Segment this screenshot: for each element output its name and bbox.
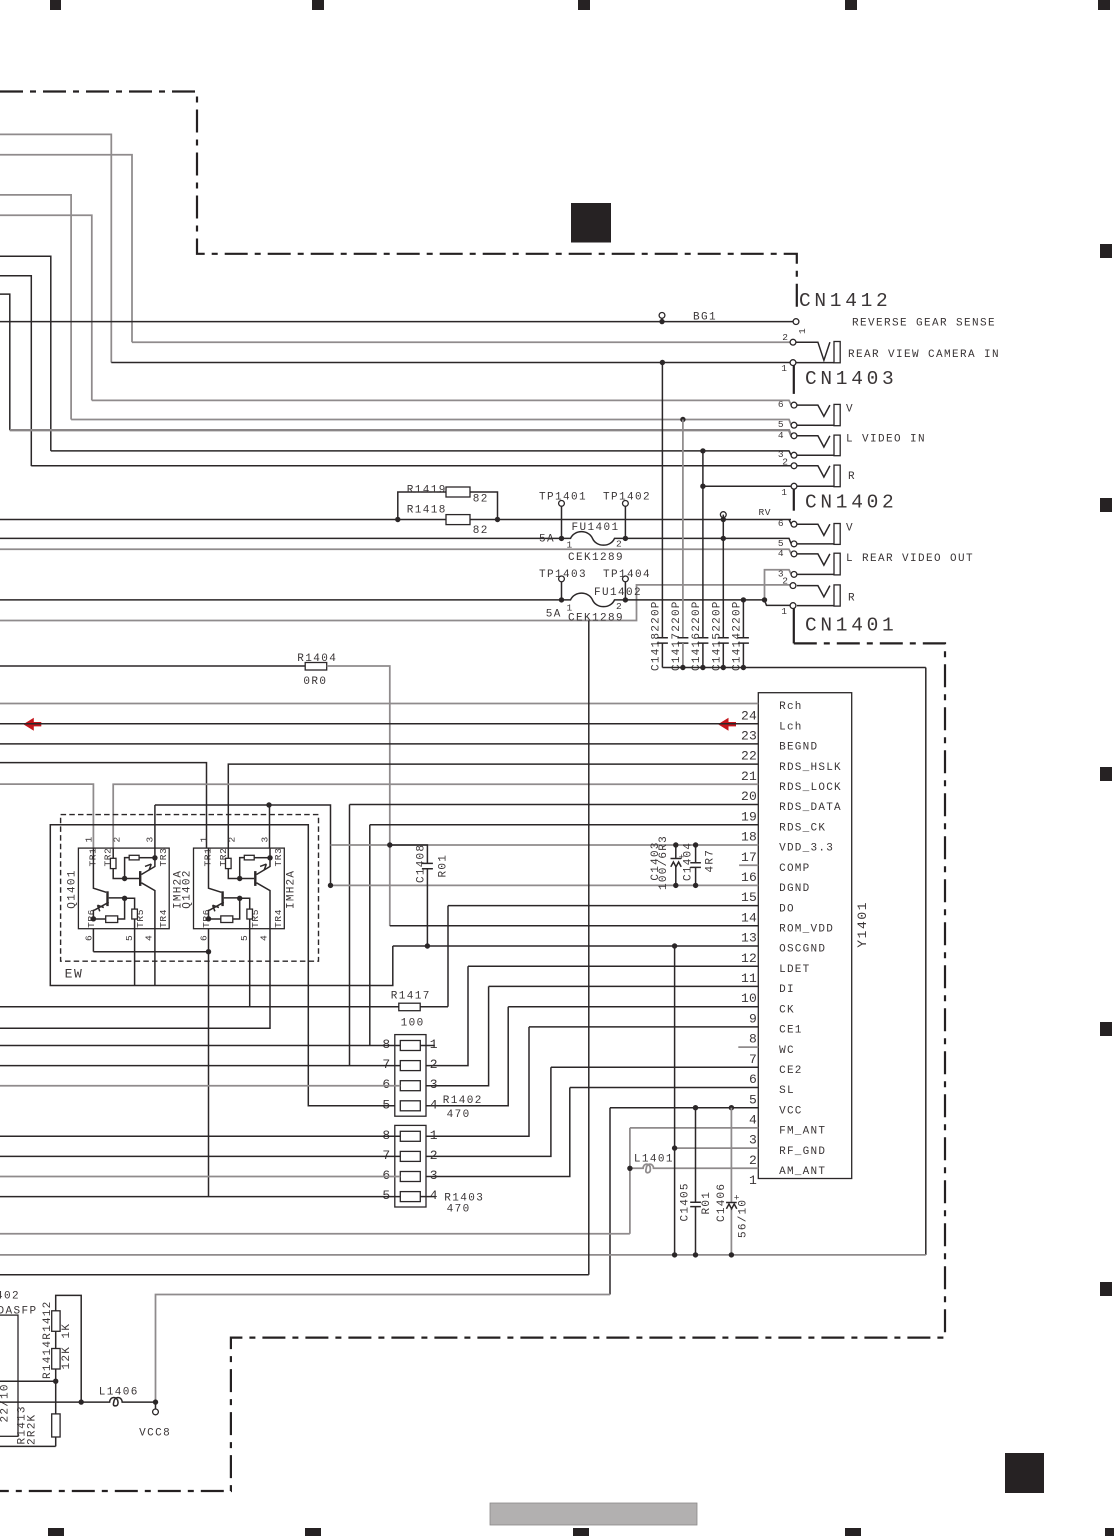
wire pin9 to R1402 pin4 xyxy=(426,1007,508,1106)
registration mark top xyxy=(578,0,590,10)
svg-text:1: 1 xyxy=(781,606,787,617)
svg-text:1: 1 xyxy=(567,603,573,614)
resistor R1403 element 3 xyxy=(400,1172,420,1182)
svg-text:4: 4 xyxy=(749,1113,757,1128)
svg-text:CE1: CE1 xyxy=(779,1025,803,1037)
wire VCC pin4 xyxy=(610,1107,758,1109)
power VCC8 xyxy=(155,1402,157,1409)
junction xyxy=(673,883,678,888)
svg-text:Q1401: Q1401 xyxy=(67,869,79,908)
wire RDS_CK pin18 xyxy=(370,824,759,826)
svg-text:1: 1 xyxy=(781,363,787,374)
svg-text:R1419: R1419 xyxy=(407,484,447,496)
svg-text:R1418: R1418 xyxy=(407,505,447,517)
wire CK pin9 xyxy=(508,1006,758,1008)
wire pin6 net to R1403 row4 xyxy=(208,929,210,1197)
junction C1417 top xyxy=(680,417,685,422)
wire Q1401 pin2 to RDS_LOCK pin20 xyxy=(113,784,758,858)
capacitor C1414 xyxy=(742,600,744,637)
svg-text:R: R xyxy=(848,471,856,483)
wire FM_ANT pin3 xyxy=(630,1127,758,1129)
fuse FU1401 xyxy=(562,532,792,546)
wire Q1402 pin2 to RDS_HSLK pin21 xyxy=(228,764,758,858)
wire R1417 right xyxy=(420,1006,448,1008)
wire OSCGND guard ring xyxy=(50,825,395,1106)
svg-text:2: 2 xyxy=(782,332,788,343)
svg-text:Q1402: Q1402 xyxy=(182,869,194,908)
svg-text:TP1404: TP1404 xyxy=(603,569,651,581)
svg-text:5: 5 xyxy=(382,1097,390,1112)
svg-text:REVERSE GEAR SENSE: REVERSE GEAR SENSE xyxy=(852,318,996,330)
junction xyxy=(267,855,272,860)
junction pin1 pin3 net xyxy=(762,597,767,602)
svg-text:9: 9 xyxy=(749,1012,757,1027)
svg-text:23: 23 xyxy=(741,729,757,744)
svg-text:LDET: LDET xyxy=(779,964,810,976)
junction xyxy=(693,1252,698,1257)
wire pin19 to R1402 pin7 xyxy=(349,805,351,1066)
wire pin5 to R1403 pin3 xyxy=(426,1088,570,1177)
svg-text:RV: RV xyxy=(759,507,772,518)
pin 1 CN1412 xyxy=(793,319,799,325)
svg-text:5: 5 xyxy=(749,1092,757,1107)
wire xyxy=(0,215,92,400)
wire xyxy=(789,520,791,525)
svg-text:100: 100 xyxy=(401,1018,425,1030)
svg-text:DI: DI xyxy=(779,984,795,996)
svg-text:1: 1 xyxy=(199,836,210,842)
svg-text:12: 12 xyxy=(741,951,757,966)
wire to CN1402 pin 2 xyxy=(0,585,791,621)
junction xyxy=(700,665,705,670)
svg-text:IMH2A: IMH2A xyxy=(285,870,297,909)
svg-text:82: 82 xyxy=(473,525,489,537)
svg-text:2: 2 xyxy=(430,1057,438,1072)
svg-text:1: 1 xyxy=(430,1037,438,1052)
svg-text:8: 8 xyxy=(382,1128,390,1143)
resistor R1419 xyxy=(446,487,470,497)
junction xyxy=(122,896,127,901)
svg-text:RDS_LOCK: RDS_LOCK xyxy=(779,782,842,794)
pin 6 CN1402 xyxy=(791,521,797,527)
svg-text:8: 8 xyxy=(749,1032,757,1047)
svg-text:6: 6 xyxy=(778,518,784,529)
wire pin18 to R1402 pin8 xyxy=(369,825,371,1046)
svg-text:CEK1289: CEK1289 xyxy=(568,552,624,564)
svg-text:WC: WC xyxy=(779,1045,795,1057)
registration mark right xyxy=(1100,1282,1112,1296)
svg-text:TP1403: TP1403 xyxy=(539,569,587,581)
wire R1412 R1414 xyxy=(55,1331,57,1348)
IC Y1401 body xyxy=(758,693,851,1179)
wire LDET pin11 xyxy=(468,965,758,967)
svg-text:CE2: CE2 xyxy=(779,1065,803,1077)
svg-text:RDS_CK: RDS_CK xyxy=(779,823,826,835)
jack symbol V out xyxy=(797,524,830,535)
wire Q1401 pin4 down xyxy=(154,929,156,986)
node TP1404 xyxy=(623,576,629,582)
resistor network R1403 xyxy=(395,1125,426,1207)
svg-text:3: 3 xyxy=(749,1133,757,1148)
registration mark top xyxy=(312,0,324,10)
transistor internals Q1402 xyxy=(209,848,222,892)
svg-text:1: 1 xyxy=(749,1173,757,1188)
capacitor C1408 xyxy=(390,845,428,863)
svg-text:1: 1 xyxy=(797,328,808,334)
wire DI pin10 xyxy=(489,985,759,987)
junction xyxy=(673,842,678,847)
border dash-dot top left xyxy=(0,92,797,309)
wire RDS_LOCK external to Q1401 pin1 xyxy=(0,784,93,848)
svg-text:2: 2 xyxy=(430,1148,438,1163)
svg-text:470: 470 xyxy=(447,1109,471,1121)
svg-text:4R7: 4R7 xyxy=(705,849,717,873)
wire xyxy=(0,155,132,343)
wire DO pin14 xyxy=(448,905,758,907)
wire R1403 pin8 xyxy=(0,1135,400,1137)
wire to CN1403 pin 5 xyxy=(71,420,791,426)
svg-text:C1405: C1405 xyxy=(679,1182,691,1221)
border bar CN1401 xyxy=(793,607,795,643)
junction xyxy=(729,1252,734,1257)
svg-text:3: 3 xyxy=(145,836,156,842)
svg-text:R1404: R1404 xyxy=(297,653,337,665)
svg-text:7: 7 xyxy=(382,1057,390,1072)
svg-text:DGND: DGND xyxy=(779,883,810,895)
svg-text:4: 4 xyxy=(778,548,784,559)
wire to CN1403 pin 3 xyxy=(51,451,792,455)
svg-text:C1418220P: C1418220P xyxy=(651,600,663,671)
wire pin14 to R1417 xyxy=(447,906,449,1007)
junction C1408 top xyxy=(387,842,392,847)
capacitor C1415 xyxy=(722,515,724,638)
junction CN1403 pin1 net xyxy=(700,484,705,489)
svg-text:Rch: Rch xyxy=(779,701,803,713)
svg-text:1K: 1K xyxy=(61,1323,73,1339)
capacitor C1405 xyxy=(695,1108,697,1255)
svg-text:FM_ANT: FM_ANT xyxy=(779,1126,826,1138)
svg-text:TP1401: TP1401 xyxy=(539,491,587,503)
wire xyxy=(0,294,10,430)
svg-text:11: 11 xyxy=(741,971,757,986)
pin 4 CN1403 xyxy=(791,433,797,439)
svg-text:Lch: Lch xyxy=(779,721,803,733)
svg-text:L VIDEO IN: L VIDEO IN xyxy=(846,434,926,446)
junction C1408 bottom xyxy=(425,943,430,948)
wire xyxy=(0,276,31,466)
wire BEGND pin22 xyxy=(0,743,758,745)
wire long vertical x588 xyxy=(588,621,590,1275)
svg-text:24: 24 xyxy=(741,708,757,723)
svg-text:4: 4 xyxy=(144,935,155,941)
registration mark right xyxy=(1100,1022,1112,1036)
svg-text:19: 19 xyxy=(741,809,757,824)
svg-text:VCC8: VCC8 xyxy=(139,1428,171,1440)
svg-text:BG1: BG1 xyxy=(693,312,717,324)
svg-text:R1417: R1417 xyxy=(391,990,431,1002)
pin 2 CN1402 xyxy=(790,583,796,589)
svg-text:1: 1 xyxy=(781,487,787,498)
junction xyxy=(237,896,242,901)
gray bar bottom xyxy=(490,1503,697,1525)
wire to CN1402 pin 3 xyxy=(765,570,792,601)
svg-text:SL: SL xyxy=(779,1085,795,1097)
svg-text:FU1401: FU1401 xyxy=(572,522,620,534)
test point TP1403 xyxy=(561,582,563,600)
junction C1406 top xyxy=(729,1105,734,1110)
wire OSCGND pin12 xyxy=(393,945,759,947)
svg-text:TP1402: TP1402 xyxy=(603,491,651,503)
svg-text:4: 4 xyxy=(430,1097,438,1112)
alignment square bottom right xyxy=(1005,1453,1044,1493)
resistor R1418 xyxy=(446,515,470,525)
svg-text:REAR VIEW CAMERA IN: REAR VIEW CAMERA IN xyxy=(848,349,1000,361)
svg-text:6: 6 xyxy=(749,1072,757,1087)
registration mark top xyxy=(845,0,857,10)
wire R1402 pin6 xyxy=(0,1085,400,1087)
svg-text:3: 3 xyxy=(430,1168,438,1183)
svg-text:100/6R3: 100/6R3 xyxy=(658,835,670,890)
transistor internals Q1401 xyxy=(93,848,106,892)
svg-text:OSCGND: OSCGND xyxy=(779,944,826,956)
svg-text:0R0: 0R0 xyxy=(303,676,327,688)
node RV stub xyxy=(722,517,724,520)
junction TR6 Q1401 xyxy=(91,916,96,921)
svg-text:C1406: C1406 xyxy=(716,1183,728,1222)
pin 3 CN1403 xyxy=(791,452,797,458)
wire pin6 to R1403 pin2 xyxy=(426,1067,551,1156)
border bar CN1402 xyxy=(793,488,795,511)
border dash-dot right xyxy=(0,643,945,1491)
svg-text:22/10: 22/10 xyxy=(0,1383,12,1422)
wire WC stub pin7 xyxy=(738,1046,758,1048)
svg-text:7: 7 xyxy=(382,1148,390,1163)
svg-text:20: 20 xyxy=(741,789,757,804)
wire cap common xyxy=(662,667,925,669)
junction L1401 left xyxy=(627,1166,632,1171)
junction xyxy=(495,517,500,522)
node VCC8 xyxy=(153,1409,159,1415)
fuse FU1402 xyxy=(562,593,765,607)
svg-text:2: 2 xyxy=(782,456,788,467)
junction xyxy=(122,876,127,881)
capacitor C1404 xyxy=(695,845,697,885)
wire VCC rail to L1406 xyxy=(156,1295,611,1403)
border bar CN1403 xyxy=(793,363,795,394)
svg-text:C1415220P: C1415220P xyxy=(712,600,724,671)
wire FM antenna rail xyxy=(0,1233,630,1235)
capacitor C1403 electrolytic xyxy=(675,845,677,885)
svg-text:2: 2 xyxy=(616,601,622,612)
pin 5 CN1402 xyxy=(791,541,797,547)
wire FM_ANT down xyxy=(629,1128,631,1234)
wire R1403 pin6 xyxy=(0,1176,400,1178)
transistor array Q1402 xyxy=(194,848,285,929)
wire R1403 pin4 stub xyxy=(420,1196,435,1198)
registration mark right xyxy=(1100,244,1112,258)
wire camera shield xyxy=(111,362,791,364)
registration mark bottom xyxy=(48,1528,64,1536)
svg-text:DO: DO xyxy=(779,903,795,915)
junction C1415 xyxy=(721,536,726,541)
svg-text:V: V xyxy=(846,404,854,416)
wire COMP stub pin16 xyxy=(739,864,758,866)
svg-text:RDS_DATA: RDS_DATA xyxy=(779,802,842,814)
svg-text:470: 470 xyxy=(447,1204,471,1216)
junction BG1 xyxy=(659,319,664,324)
svg-text:1: 1 xyxy=(430,1128,438,1143)
junction xyxy=(152,855,157,860)
svg-text:RDS_HSLK: RDS_HSLK xyxy=(779,762,842,774)
svg-text:C1414220P: C1414220P xyxy=(732,600,744,671)
jack symbol REAR VIEW CAMERA IN xyxy=(796,342,830,360)
svg-text:CEK1289: CEK1289 xyxy=(568,613,624,625)
wire to CN1402 pin 4 xyxy=(0,549,791,554)
wire Q1402 pin4 to left xyxy=(0,929,270,1028)
wire pin11 to R1402 pin2 xyxy=(426,966,468,1065)
junction pin6 tie xyxy=(206,949,211,954)
pin 3 CN1402 xyxy=(791,572,797,578)
wire to CN1403 pin 4 xyxy=(10,430,792,436)
svg-text:DASFP: DASFP xyxy=(0,1306,38,1318)
wire to FU1402 xyxy=(0,599,562,601)
svg-text:L1406: L1406 xyxy=(99,1386,139,1398)
svg-text:ROM_VDD: ROM_VDD xyxy=(779,924,834,936)
resistor R1403 element 4 xyxy=(400,1192,420,1202)
wire SL pin5 xyxy=(570,1087,759,1089)
junction xyxy=(693,883,698,888)
svg-text:R1402: R1402 xyxy=(443,1095,483,1107)
wire pin6 tie xyxy=(93,951,208,953)
wire pin10 to R1402 pin3 xyxy=(426,986,489,1085)
wire ROM_VDD pin13 xyxy=(390,925,759,927)
svg-text:15: 15 xyxy=(741,890,757,905)
svg-text:18: 18 xyxy=(741,830,757,845)
junction L1406 right xyxy=(153,1399,158,1404)
wire Lch pin23 xyxy=(0,723,758,725)
node RV xyxy=(720,512,726,518)
svg-text:TR4: TR4 xyxy=(158,909,169,928)
svg-text:6: 6 xyxy=(778,399,784,410)
svg-text:R01: R01 xyxy=(701,1191,713,1215)
jack symbol L VIDEO IN xyxy=(797,436,830,447)
svg-text:4: 4 xyxy=(259,935,270,941)
junction Q1402 pin3 xyxy=(266,802,271,807)
wire Q1402 pin3 up xyxy=(269,805,271,848)
resistor R1402 element 1 xyxy=(400,1041,420,1051)
node TP1403 xyxy=(559,576,565,582)
wire R1417 left xyxy=(0,1006,399,1008)
svg-text:CN1412: CN1412 xyxy=(799,290,891,312)
svg-text:12K: 12K xyxy=(61,1346,73,1370)
wire to L1406 xyxy=(0,1401,81,1403)
wire Q1401 pin3 up xyxy=(154,805,156,848)
wire RDS_DATA pin19 xyxy=(350,804,759,806)
wire R1403 pin5 xyxy=(0,1196,400,1198)
wire OSCGND to ground rail xyxy=(674,946,676,1255)
resistor R1402 element 3 xyxy=(400,1081,420,1091)
pin 1 CN1402 xyxy=(790,603,796,609)
svg-text:14: 14 xyxy=(741,910,757,925)
svg-text:AM_ANT: AM_ANT xyxy=(779,1166,826,1178)
junction OSCGND down xyxy=(672,943,677,948)
wire to CN1403 pin 1 xyxy=(703,485,791,487)
svg-text:R01: R01 xyxy=(438,854,450,878)
svg-text:17: 17 xyxy=(741,850,757,865)
wire to R1414 junction xyxy=(0,1380,56,1382)
svg-text:COMP: COMP xyxy=(779,863,810,875)
wire Rch pin24 xyxy=(0,703,758,705)
svg-text:2: 2 xyxy=(112,836,123,842)
test point TP1402 xyxy=(624,506,626,538)
svg-text:10: 10 xyxy=(741,991,757,1006)
svg-text:16: 16 xyxy=(741,870,757,885)
resistor R1403 element 2 xyxy=(400,1151,420,1161)
junction xyxy=(721,665,726,670)
resistor R1417 xyxy=(399,1003,420,1011)
svg-text:RF_GND: RF_GND xyxy=(779,1146,826,1158)
wire R1403 pin7 xyxy=(0,1155,400,1157)
svg-text:5: 5 xyxy=(239,935,250,941)
resistor network R1402 xyxy=(395,1035,426,1117)
svg-text:VDD_3.3: VDD_3.3 xyxy=(779,843,834,855)
wire RV net xyxy=(0,519,791,521)
wire to CN1403 pin 6 xyxy=(92,400,792,405)
jack symbol R out xyxy=(797,586,830,597)
svg-text:C1416220P: C1416220P xyxy=(691,600,703,671)
arrow marker Lch xyxy=(23,718,41,731)
svg-text:C1404: C1404 xyxy=(682,842,694,881)
svg-text:V: V xyxy=(846,523,854,535)
junction xyxy=(693,842,698,847)
registration mark bottom xyxy=(845,1528,861,1536)
wire to CN1402 pin 1 xyxy=(765,600,792,605)
svg-text:6: 6 xyxy=(382,1168,390,1183)
jack symbol L REAR VIDEO OUT xyxy=(797,554,830,565)
wire RF_GND pin2 xyxy=(675,1147,759,1149)
pin 1 CN1412 jack xyxy=(790,360,796,366)
svg-text:56/10: 56/10 xyxy=(737,1199,749,1238)
wire to CN1403 pin 2 xyxy=(31,465,791,467)
resistor R1402 element 2 xyxy=(400,1061,420,1071)
wire pin8 to R1403 pin1 xyxy=(426,1027,529,1136)
wire RDS_HSLK external to Q1402 pin1 xyxy=(0,763,207,849)
svg-text:FU1402: FU1402 xyxy=(594,587,642,599)
junction DGND xyxy=(328,883,333,888)
pin 6 CN1403 xyxy=(791,402,797,408)
wire R1402 pin1 stub xyxy=(420,1045,435,1047)
wire R1402 pin8 xyxy=(0,1045,400,1047)
svg-text:CK: CK xyxy=(779,1004,795,1016)
registration mark bottom xyxy=(1105,1528,1114,1536)
junction R1414 bottom xyxy=(53,1379,58,1384)
registration mark top xyxy=(50,0,61,10)
svg-text:R: R xyxy=(848,593,856,605)
wire CE1 pin8 xyxy=(529,1026,758,1028)
wire R1402 pin7 xyxy=(0,1065,400,1067)
capacitor C1416 xyxy=(702,451,704,637)
junction xyxy=(395,517,400,522)
wire Q1401 pin6 down xyxy=(92,929,94,952)
junction FU1402 pin1 xyxy=(559,597,564,602)
junction xyxy=(237,876,242,881)
svg-text:22: 22 xyxy=(741,749,757,764)
junction C1418 top xyxy=(660,360,665,365)
resistor R1402 element 4 xyxy=(400,1101,420,1111)
wire R1419 right xyxy=(470,492,498,520)
pin 1 CN1403 xyxy=(791,483,797,489)
wire xyxy=(0,256,51,451)
